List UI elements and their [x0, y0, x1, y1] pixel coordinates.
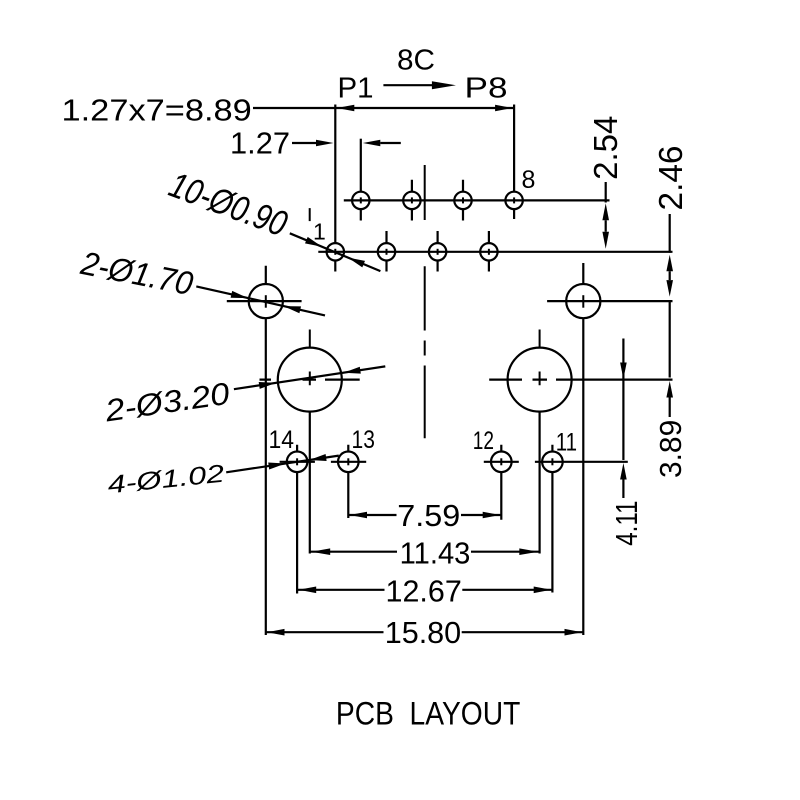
pad 12	[491, 445, 512, 520]
svg-text:15.80: 15.80	[385, 615, 462, 650]
pad 13	[338, 445, 359, 518]
dimension 3.89	[653, 301, 688, 478]
svg-text:1.27: 1.27	[230, 126, 290, 161]
pad P2	[352, 192, 369, 221]
row line pins 11-14	[280, 461, 628, 463]
leader 10-0.90	[164, 164, 380, 272]
pad 11	[542, 445, 563, 593]
svg-text:7.59: 7.59	[397, 498, 460, 533]
svg-text:2.54: 2.54	[587, 116, 624, 180]
hole 1.70 right	[547, 263, 672, 635]
row line pins bottom row	[318, 251, 672, 253]
svg-text:14: 14	[269, 426, 295, 454]
pad P3	[378, 231, 395, 272]
dimension 1.27x7=8.89	[62, 92, 515, 127]
svg-text:P8: P8	[465, 73, 508, 105]
pad P4	[403, 180, 420, 221]
extension line pin8 column	[513, 105, 515, 192]
centerline	[424, 165, 426, 438]
pad P5	[429, 231, 446, 272]
leader 2-3.20	[102, 366, 385, 428]
dimension 1.27	[230, 126, 401, 161]
svg-text:11.43: 11.43	[400, 535, 471, 570]
svg-text:P1: P1	[338, 73, 374, 105]
label 1 tick	[309, 208, 311, 221]
pad P7	[480, 231, 497, 272]
svg-text:12.67: 12.67	[386, 573, 462, 608]
leader 4-1.02	[106, 454, 339, 499]
hole 1.70 left	[227, 266, 302, 635]
svg-text:1: 1	[313, 219, 326, 245]
extension line pin1 column	[334, 105, 336, 244]
svg-text:4.11: 4.11	[609, 501, 644, 546]
pad P1	[327, 243, 344, 271]
hole 3.20 left	[260, 330, 360, 554]
svg-text:8: 8	[522, 166, 536, 194]
pad 14	[287, 445, 308, 594]
pad P6	[454, 180, 471, 221]
pad P8	[505, 192, 522, 219]
dimension 15.80	[265, 615, 583, 650]
leader 2-1.70	[77, 244, 325, 316]
dimension 11.43	[310, 535, 540, 570]
svg-text:1.27x7=8.89: 1.27x7=8.89	[62, 92, 252, 127]
svg-text:13: 13	[352, 426, 375, 454]
arrow P1 to P8	[383, 81, 456, 89]
svg-text:3.89: 3.89	[653, 420, 688, 478]
svg-text:12: 12	[473, 427, 494, 455]
hole 3.20 right	[489, 330, 672, 554]
svg-text:11: 11	[556, 429, 577, 457]
extension line pin2 column	[360, 139, 362, 192]
dimension 7.59	[348, 498, 501, 533]
dimension 4.11	[609, 339, 644, 546]
dimension 2.46	[652, 146, 689, 297]
svg-text:PCB LAYOUT: PCB LAYOUT	[336, 696, 520, 732]
dimension 2.54	[587, 116, 624, 249]
svg-text:8C: 8C	[397, 45, 435, 77]
svg-text:2.46: 2.46	[652, 146, 689, 211]
dimension 12.67	[297, 573, 553, 608]
row line pins top row	[344, 199, 610, 201]
